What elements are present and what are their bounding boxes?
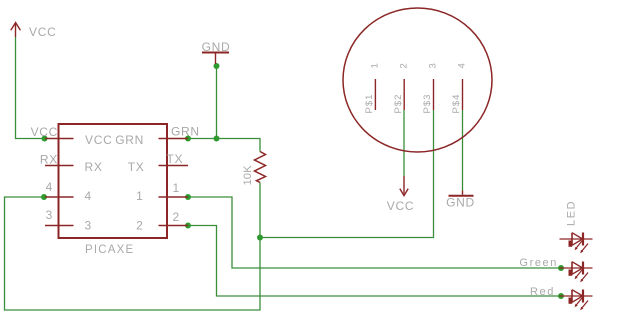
svg-text:3: 3 <box>85 219 92 233</box>
svg-text:1: 1 <box>136 189 143 203</box>
svg-text:RX: RX <box>40 153 58 167</box>
svg-text:4: 4 <box>457 62 468 68</box>
svg-text:2: 2 <box>398 62 409 68</box>
svg-text:VCC: VCC <box>85 133 112 147</box>
svg-text:GRN: GRN <box>171 125 200 139</box>
svg-text:PICAXE: PICAXE <box>85 244 134 256</box>
svg-text:GND: GND <box>446 195 475 209</box>
svg-text:Green: Green <box>519 257 558 269</box>
svg-text:3: 3 <box>46 208 53 222</box>
svg-text:4: 4 <box>46 180 53 194</box>
svg-text:VCC: VCC <box>29 25 56 39</box>
svg-text:10K: 10K <box>242 165 254 186</box>
svg-text:1: 1 <box>370 62 381 68</box>
svg-text:4: 4 <box>85 189 92 203</box>
svg-text:P$2: P$2 <box>393 94 404 114</box>
svg-text:2: 2 <box>173 210 180 224</box>
svg-text:TX: TX <box>128 160 145 174</box>
svg-text:GRN: GRN <box>115 133 144 147</box>
svg-text:VCC: VCC <box>387 199 414 213</box>
svg-text:2: 2 <box>136 219 143 233</box>
svg-text:P$3: P$3 <box>422 94 433 114</box>
svg-text:LED: LED <box>566 200 578 226</box>
svg-text:P$1: P$1 <box>364 94 375 114</box>
svg-text:VCC: VCC <box>31 125 58 139</box>
svg-text:P$4: P$4 <box>451 94 462 114</box>
svg-text:1: 1 <box>173 181 180 195</box>
svg-text:RX: RX <box>85 160 103 174</box>
svg-text:Red: Red <box>530 286 555 298</box>
svg-text:TX: TX <box>167 152 184 166</box>
svg-text:3: 3 <box>428 62 439 68</box>
